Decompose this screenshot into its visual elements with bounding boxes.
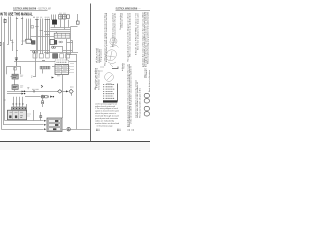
wire dist 1 (7, 91, 58, 93)
connector symbol B1 cross (41, 95, 44, 98)
switch box S1 (26, 39, 31, 43)
connector circle 3 (52, 46, 54, 48)
U1 top marks (10, 111, 24, 113)
arrow node D (66, 90, 68, 92)
wire circle drop (42, 98, 44, 101)
connector pair tick (42, 60, 45, 62)
footnote mark left (96, 129, 99, 130)
wire pin 4 (22, 97, 24, 107)
connector table T1 (55, 65, 68, 75)
meter row 2 (49, 124, 61, 127)
wire stub v2 (40, 112, 42, 121)
JB midline (54, 35, 70, 37)
page background (0, 0, 150, 150)
svg-text:When troubleshooting any probl: When troubleshooting any problem first u… (146, 12, 149, 64)
wire aux drop (12, 40, 14, 52)
connector tick A (16, 18, 18, 20)
connector tick B (21, 18, 23, 20)
relay R6 label (21, 86, 24, 87)
switch box S2 (50, 40, 55, 45)
wire out 3 h (1, 129, 43, 131)
bus wire 3 (44, 31, 71, 33)
JB internal tick 2 (61, 33, 63, 38)
connector J1 vdiv (60, 15, 62, 19)
wire relay out (54, 24, 56, 27)
wire meter out (62, 129, 66, 131)
footnote mark right 1 (128, 129, 135, 131)
bus wire 2 (51, 29, 71, 31)
svg-text:through ground points and all: through ground points and all connectors… (105, 12, 108, 62)
wire R6 out (14, 89, 16, 91)
right header rule (116, 10, 151, 12)
connector circle pair A (59, 41, 61, 43)
arrow meter 2 (44, 124, 46, 126)
relay R2 (dark) (32, 41, 35, 45)
wire sensor feed 1 (45, 19, 47, 54)
bus wire 4 (44, 52, 78, 54)
fuse box F2 (14, 67, 17, 70)
table T1 row 2 (55, 68, 70, 70)
splice box (45, 95, 48, 98)
wire fuse feed (4, 18, 6, 121)
inline connector on dist 1 (22, 91, 24, 93)
wire battery rail (1, 17, 3, 130)
connector pill 3 (144, 106, 149, 110)
table T1 bottom label (57, 75, 60, 77)
meter row 1 (49, 120, 61, 123)
wire out 2 v (3, 42, 5, 125)
wire ignition end tick (7, 44, 9, 46)
relay R4 (dark) (53, 54, 58, 59)
table T1 text marks (57, 66, 68, 72)
wire meter feed 2 (37, 19, 39, 54)
relay R5 (gray) (12, 74, 18, 79)
connector symbol B1 (41, 95, 44, 98)
connector block J2 (63, 15, 66, 19)
wire link C3 drop (62, 47, 64, 53)
node D label (70, 86, 73, 88)
junction block JB (54, 33, 70, 38)
JB internal tick 1 (57, 33, 59, 38)
connector block J1 (59, 15, 62, 19)
wire relay feed 3 (55, 15, 57, 21)
svg-text:Wire colors are indicated by a: Wire colors are indicated by an alphabet… (129, 12, 132, 57)
wire accessory end tick (10, 40, 12, 42)
wire diamond link (62, 91, 66, 93)
corner bracket mark (112, 67, 118, 69)
wire stop tick mid (21, 44, 23, 46)
wire label above dist 1 (32, 88, 39, 90)
pin connector ticks (12, 103, 23, 104)
tick on meter pair (35, 26, 38, 28)
connector pill 2 (144, 99, 149, 103)
relay R5 marks (13, 76, 18, 77)
color code table rows (103, 85, 114, 99)
rail tick (4, 99, 6, 101)
bus wire 1 (51, 27, 71, 29)
black label bar (103, 100, 117, 102)
svg-text:first letter indicates: first letter indicates (148, 70, 150, 92)
wire tail feed (16, 17, 18, 66)
relay R1 (52, 20, 56, 25)
table T1 row 4 (55, 72, 70, 74)
arrow mark M (50, 96, 52, 98)
wire accessory feed (10, 17, 12, 41)
U1 divider 1 (12, 110, 14, 120)
svg-text:ON TO USE THIS MANUAL: ON TO USE THIS MANUAL (0, 12, 33, 17)
wire ECU jog 1 (67, 42, 74, 44)
connector row (gray) (12, 107, 27, 110)
grid labels (59, 12, 66, 14)
lamp box L1 (33, 54, 37, 58)
svg-text:The wiri: The wiri (123, 63, 126, 69)
connector circle 2 (34, 51, 36, 53)
splice circle S (33, 90, 35, 92)
svg-text:first letter indicat: first letter indicat (97, 69, 100, 90)
table T1 row 3 (55, 70, 70, 72)
connector tick D (45, 19, 50, 21)
inline connector E (42, 101, 44, 102)
transistor Q2 (dark) (15, 115, 17, 118)
connector pill 1 (144, 93, 149, 97)
tick on lamp pair (40, 30, 43, 32)
U1 side label (28, 114, 31, 116)
figure sketch (circle diagram) (106, 50, 117, 67)
wire left box top (7, 66, 20, 68)
wire stub v1 (33, 110, 35, 121)
meter row 3 (49, 128, 61, 131)
wire left box side L (6, 66, 8, 74)
wire left box mid (14, 66, 16, 74)
table T1 side labels (71, 64, 74, 73)
fuse tick (4, 19, 7, 21)
wire mid drop 2 (42, 69, 44, 74)
diamond node C (58, 90, 62, 94)
arrow into node A (22, 93, 24, 95)
svg-text:– ELECTRICAL WIR: – ELECTRICAL WIR (37, 7, 51, 11)
wire gauge feed 3 (30, 19, 32, 41)
relay R5 label (21, 75, 24, 76)
diode box D2 (66, 54, 70, 58)
splice text mark (31, 76, 33, 77)
relay R6 marks (13, 86, 18, 87)
wire label box out (69, 61, 78, 63)
wire lamp feed 1 (40, 19, 42, 54)
wire ECU side (70, 27, 72, 55)
wire G1 drop (16, 61, 18, 66)
arrow meter 1 (44, 120, 46, 122)
U1 divider 2 (18, 110, 20, 120)
wire lamp feed 2 (42, 19, 44, 54)
connector F cross (67, 128, 70, 131)
wire sensor feed 2 (47, 19, 49, 54)
callout corner (22, 39, 26, 41)
wire out 1 v (4, 120, 6, 122)
wire right drop (76, 55, 78, 130)
left header rule (13, 10, 48, 12)
color table right rule (117, 84, 119, 102)
connector circle 4 (54, 46, 56, 48)
lamp box L2 (39, 54, 43, 58)
wire pin 3 (19, 97, 21, 107)
wire mid drop 1 (35, 64, 37, 77)
wire relay feed 1 (51, 15, 53, 21)
svg-text:B Black L: B Black L (146, 67, 148, 78)
title HOW TO USE THIS MANUAL (cropped) (0, 12, 33, 17)
ECU block U1 (8, 110, 27, 120)
wire relay feed 2 (53, 15, 55, 21)
svg-text:in the previous page: in the previous page (97, 125, 114, 128)
wire stop feed (22, 17, 24, 45)
wire meter feed 1 (36, 19, 38, 51)
wire mid riser (35, 54, 37, 65)
wire diamond drop (71, 94, 73, 96)
wire junction drop 1 (60, 19, 62, 28)
wire out 1 h (5, 120, 44, 122)
label box text (57, 61, 68, 63)
stub tick box (40, 116, 42, 118)
connector pill 4 (144, 112, 149, 116)
svg-text:ELECTRICAL WIRING DIAGRAM: ELECTRICAL WIRING DIAGRAM (116, 7, 138, 11)
bottom page rule (0, 141, 150, 143)
diode box D1 (60, 54, 64, 58)
connector circle 1 (33, 51, 35, 53)
lamp box L3 (46, 54, 50, 58)
wire ECU inner 2 (72, 41, 74, 53)
bus wire 5 (31, 36, 55, 38)
page divider wire (gutter rule) (90, 4, 92, 142)
wire dist 2 (7, 93, 22, 95)
JB internal tick 3 (65, 33, 67, 38)
gray band ticks (42, 66, 49, 69)
wire name labels (33, 16, 49, 18)
wire sensor feed 3 (49, 19, 51, 54)
wire aux tick (12, 42, 14, 44)
margin blob (0, 43, 2, 46)
wire R5 to R6 (14, 79, 16, 85)
wire gauge feed 2 (28, 19, 30, 40)
wire gauge feed 1 (26, 19, 28, 40)
svg-text:The ground points shown in the: The ground points shown in the (139, 87, 142, 118)
splice hook mark (41, 85, 43, 87)
table T1 row 1 (55, 66, 70, 68)
connector block J3 (67, 15, 70, 19)
figure sketch (terminal drawing) (105, 73, 114, 86)
meter row 2 dark (55, 124, 58, 126)
relay R6 (gray) (12, 85, 18, 90)
connector C1 (76, 21, 79, 24)
wire mid pin 5 (26, 104, 28, 112)
wire table stub (52, 66, 55, 68)
wire drop E (42, 104, 44, 107)
wire tail tick mid (16, 50, 18, 52)
svg-text:relays are show: relays are show (121, 12, 124, 28)
svg-text:of the circuit where the probl: of the circuit where the problem was det… (130, 66, 133, 124)
connector circle pair B (61, 41, 63, 43)
wire ignition column (68, 20, 70, 28)
wire junction drop 2 (64, 19, 66, 30)
inline connector E2 (42, 102, 44, 103)
arrow meter 3 (44, 128, 46, 130)
wire mid drop 1 jog (33, 76, 36, 78)
below-rule tint (0, 142, 150, 150)
wire F out (70, 129, 90, 131)
figure sketch (connector diagram) (110, 38, 119, 48)
right page header text (116, 7, 141, 11)
wire cluster drop (62, 74, 64, 118)
inline connector dot on dist 1 (24, 91, 26, 93)
connector J2 grid (63, 16, 66, 18)
svg-text:relays are shown in the positi: relays are shown in the position of (136, 82, 139, 118)
connector tick C (35, 19, 39, 21)
arrow mark K (52, 77, 55, 79)
tiny marks bottom (27, 88, 29, 89)
connector row dots (13, 108, 26, 110)
meter row 3 dark (53, 128, 56, 130)
meter box (gray) (47, 118, 62, 132)
label 100 text (101, 67, 105, 71)
meter row 1 dark (55, 120, 58, 122)
connector box on gauge feed (31, 26, 34, 28)
connector J1 grid (59, 16, 62, 18)
transistor Q1 (dark) (9, 115, 11, 118)
splice tick (47, 96, 49, 98)
fusible link FL (4, 20, 6, 23)
wire pin 1 (13, 97, 15, 107)
wire ECU jog 2 (63, 50, 72, 52)
table T1 divider (61, 65, 63, 75)
gray band connector (40, 66, 50, 69)
relay R5 tick (11, 76, 13, 78)
wire pin 2 (16, 97, 18, 107)
U1 inner mark (20, 116, 23, 118)
wire row link (30, 50, 50, 52)
inline connector F (circle) (67, 128, 70, 131)
wire ECU inner (66, 39, 68, 61)
label box (dashed) (55, 60, 69, 65)
tick on sensor group (45, 34, 50, 36)
ground G1 mark (15, 58, 18, 61)
svg-text:ELECTRICAL WIRING DIAGRAM: ELECTRICAL WIRING DIAGRAM (13, 7, 36, 11)
node A dot (24, 93, 25, 94)
wire ECU branch top (71, 26, 78, 28)
wire ECU pin column (77, 14, 79, 21)
node dot M (53, 96, 55, 98)
left page header text (13, 7, 51, 11)
diamond node D (69, 89, 73, 93)
relay R3 (dark) (54, 40, 57, 44)
svg-text:The ground po: The ground po (100, 48, 103, 62)
svg-text:first letter indicates the bas: first letter indicates the basic wire (136, 12, 139, 50)
wire ECU jog 3 (67, 54, 78, 56)
wire left box side R (20, 66, 22, 74)
wire out 2 h (3, 124, 43, 126)
wire link C3 (56, 46, 63, 48)
wire ignition feed (8, 17, 10, 45)
wire dist 3 (25, 96, 40, 98)
wire ECU top jog (71, 40, 73, 42)
wire row bus (14, 61, 55, 63)
footnote mark mid (117, 129, 120, 130)
connector J2 vdiv (64, 15, 66, 19)
wire bus drop (56, 32, 58, 34)
